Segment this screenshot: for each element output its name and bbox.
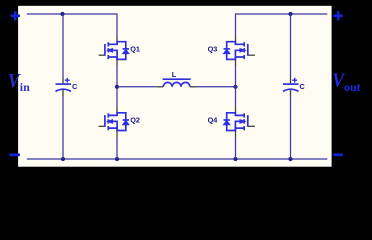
Q3 gate lead (dark) — [248, 54, 255, 56]
transistor Q2 (NMOS, gate left) — [99, 106, 140, 138]
inductor L — [163, 79, 191, 87]
Q1 gate lead (dark) — [99, 54, 105, 56]
capacitor C2 pin bottom (dark) — [290, 90, 292, 97]
transistor Q3 (NMOS, gate right, mirrored) — [208, 35, 255, 67]
Q4 drain pin (dark) — [235, 106, 237, 113]
node dot: left midpoint — [115, 85, 119, 89]
Q2 drain pin (dark) — [116, 106, 118, 113]
schematic paper panel — [18, 6, 332, 167]
capacitor C left plus mark — [65, 78, 70, 83]
transistor Q1 (NMOS, gate left) — [99, 35, 140, 67]
Q3 body diode triangle — [223, 49, 230, 53]
terminal + (top-left) — [11, 11, 20, 20]
svg-text:Q3: Q3 — [208, 45, 218, 54]
Q2 body diode triangle — [123, 121, 130, 125]
wire: inductor to node B — [196, 86, 236, 88]
svg-text:Q1: Q1 — [130, 45, 140, 54]
svg-text:Q4: Q4 — [208, 116, 219, 125]
node dot: bottom left cap — [61, 157, 65, 161]
Q2 gate lead (dark) — [99, 125, 105, 127]
Q4 body — [224, 113, 248, 131]
svg-text:C: C — [72, 82, 78, 91]
node dot: bottom Q2 source — [115, 157, 119, 161]
Q4 channel arrow — [240, 120, 245, 124]
svg-text:C: C — [300, 82, 306, 91]
transistor Q4 (NMOS, gate right, mirrored) — [208, 106, 255, 138]
wire: right cap branch upper — [290, 14, 292, 78]
Q1 channel arrow — [107, 49, 112, 53]
capacitor C2 pin top (dark) — [290, 78, 292, 85]
Q2 body — [105, 113, 129, 131]
Q3 source pin (dark) — [235, 59, 237, 66]
capacitor C1 pin bottom (dark) — [62, 90, 64, 97]
wire: left cap branch lower — [62, 97, 64, 160]
Q3 drain pin (dark) — [235, 35, 237, 42]
capacitor C (left, polarized) — [56, 84, 72, 91]
node dot: bottom Q4 source — [233, 157, 237, 161]
wire: Q1 source to midpoint node A — [116, 67, 118, 106]
Q3 body — [224, 42, 248, 60]
Q1 source pin (dark) — [116, 59, 118, 66]
inductor L pin right (dark) — [190, 86, 196, 88]
wire: left cap branch upper — [62, 14, 64, 78]
terminal + (top-right) — [334, 11, 343, 20]
Q3 channel arrow — [240, 49, 245, 53]
svg-text:out: out — [344, 80, 361, 94]
Q1 body diode triangle — [123, 49, 130, 53]
node dot: right midpoint — [233, 85, 237, 89]
wire: Q4 source to bottom rail — [235, 138, 237, 159]
Q1 body — [105, 42, 129, 60]
Q1 drain pin (dark) — [116, 35, 118, 42]
Q4 body diode triangle — [223, 121, 230, 125]
wire: top rail right segment — [236, 14, 328, 35]
Q4 source pin (dark) — [235, 131, 237, 138]
wire: top rail left segment — [27, 14, 117, 35]
node dot: top-right cap tap — [288, 12, 292, 16]
capacitor C right plus mark — [292, 78, 297, 83]
terminal - (bottom-left) — [9, 153, 20, 156]
Q4 gate lead (dark) — [248, 125, 255, 127]
wire: node A to inductor — [117, 86, 157, 88]
terminal - (bottom-right) — [334, 153, 343, 156]
Q2 channel arrow — [107, 120, 112, 124]
wire: Q2 source to bottom rail — [116, 138, 118, 159]
Q2 source pin (dark) — [116, 131, 118, 138]
capacitor C (right, polarized) — [283, 84, 299, 91]
inductor L pin left (dark) — [157, 86, 164, 88]
wire: Q3 source to node B — [235, 67, 237, 106]
wire: bottom rail — [27, 158, 328, 160]
wire: right cap branch lower — [290, 97, 292, 160]
svg-text:Q2: Q2 — [130, 116, 140, 125]
node dot: bottom right cap — [288, 157, 292, 161]
svg-text:in: in — [20, 80, 30, 94]
svg-text:L: L — [172, 70, 177, 79]
node dot: top-left cap tap — [60, 12, 64, 16]
capacitor C1 pin top (dark) — [62, 78, 64, 85]
